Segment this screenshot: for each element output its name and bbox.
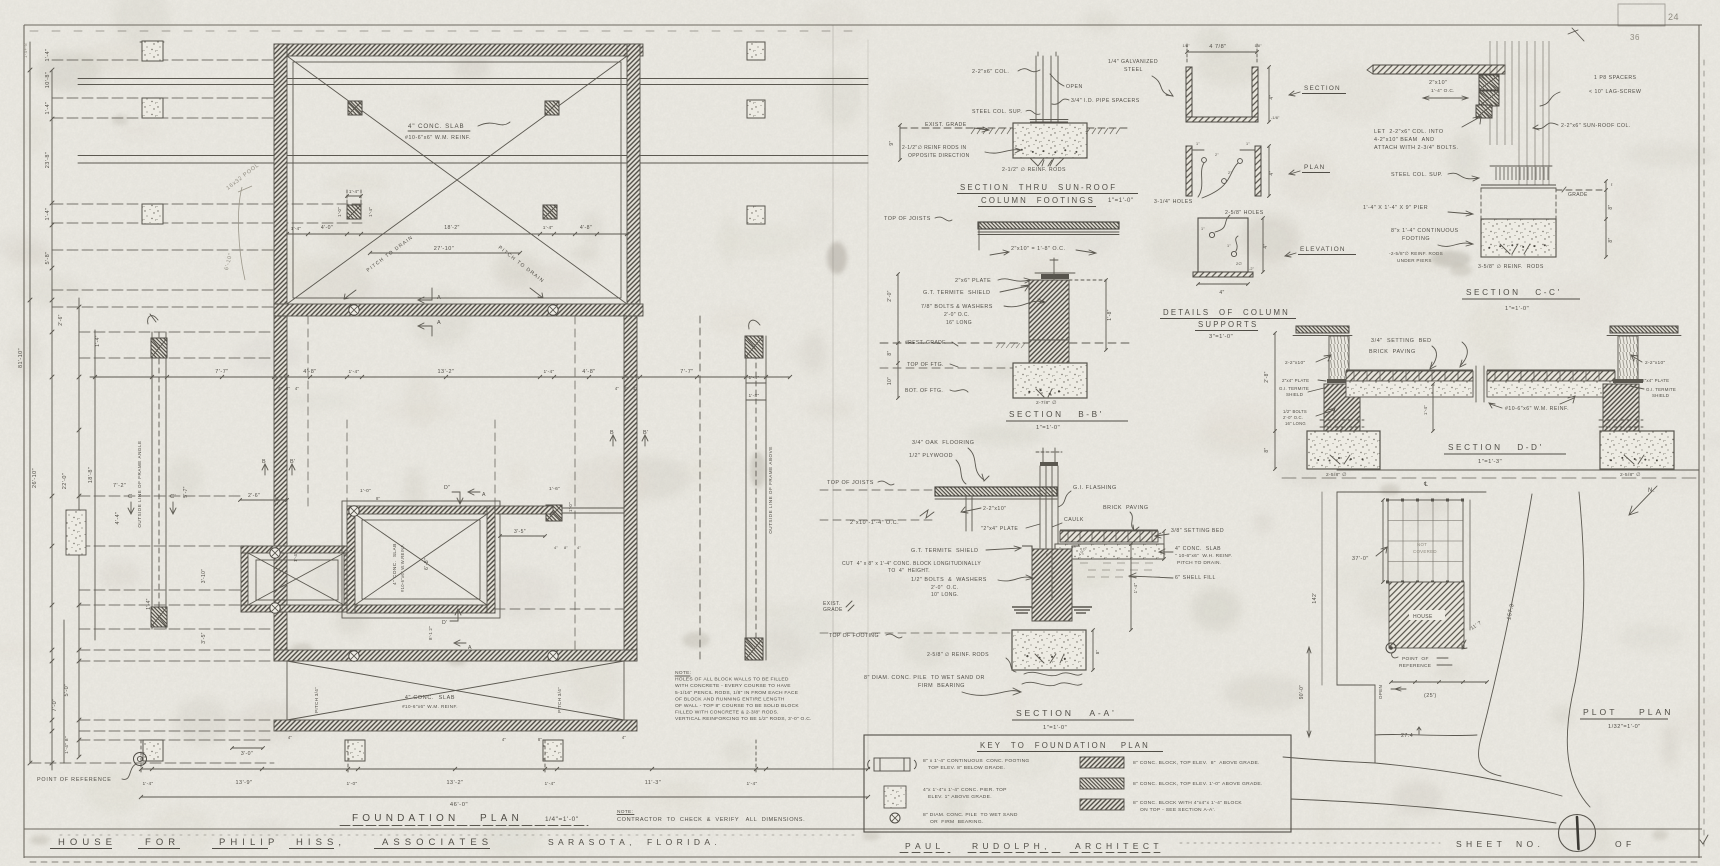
svg-text:2-5/8" ∅: 2-5/8" ∅ xyxy=(1620,472,1641,478)
svg-text:8'-1 2": 8'-1 2" xyxy=(428,626,433,640)
interior vertical guide lines xyxy=(307,316,309,506)
svg-text:F L O R I D A .: F L O R I D A . xyxy=(647,837,718,847)
pier footing tall left xyxy=(66,510,86,555)
svg-text:5'-8": 5'-8" xyxy=(45,252,51,265)
svg-text:2"x10": 2"x10" xyxy=(1429,80,1448,86)
plot lower boundary wavy xyxy=(1375,734,1477,735)
svg-text:4": 4" xyxy=(340,547,344,552)
svg-text:1'-4": 1'-4" xyxy=(274,495,279,505)
svg-text:16" LONG: 16" LONG xyxy=(946,320,972,326)
dd brick band left xyxy=(1346,371,1473,381)
plot road east line xyxy=(1567,492,1590,807)
svg-text:G.I. TERMITE: G.I. TERMITE xyxy=(1279,386,1309,391)
dd right footing xyxy=(1600,431,1674,469)
svg-text:H O U S E: H O U S E xyxy=(58,837,113,848)
overall dim 46 xyxy=(141,796,868,798)
svg-text:TOP OF FTG.: TOP OF FTG. xyxy=(907,362,944,368)
svg-text:#10-6"x6" W.W.REINF.: #10-6"x6" W.W.REINF. xyxy=(400,544,405,592)
svg-text:2"x10" = 1'-8" O.C.: 2"x10" = 1'-8" O.C. xyxy=(1011,246,1065,252)
aa right dims xyxy=(1163,531,1165,559)
svg-text:26'-10": 26'-10" xyxy=(32,468,38,488)
svg-text:O F: O F xyxy=(1615,839,1632,849)
svg-text:F O R: F O R xyxy=(145,837,176,848)
svg-text:5'-7": 5'-7" xyxy=(183,486,189,497)
svg-text:TOP ELEV. 8" BELOW GRADE.: TOP ELEV. 8" BELOW GRADE. xyxy=(928,765,1005,771)
svg-text:22'-0": 22'-0" xyxy=(62,473,68,489)
svg-text:POINT OF: POINT OF xyxy=(1402,656,1429,662)
svg-text:1'-4" 8": 1'-4" 8" xyxy=(64,736,70,754)
dd left footing rods xyxy=(1317,457,1363,462)
plot point of reference xyxy=(1386,643,1396,653)
wall pier circle bottom 1 xyxy=(349,651,359,661)
svg-text:OPEN: OPEN xyxy=(1378,685,1383,699)
channel section U xyxy=(1186,67,1258,122)
plan wall top xyxy=(274,44,643,56)
svg-text:1'-4": 1'-4" xyxy=(543,369,554,375)
svg-text:BRICK PAVING: BRICK PAVING xyxy=(1103,505,1149,511)
svg-text:1'-4": 1'-4" xyxy=(45,102,51,115)
svg-text:1/2" BOLTS & WASHERS: 1/2" BOLTS & WASHERS xyxy=(911,577,987,583)
svg-text:STEEL COL. SUP.: STEEL COL. SUP. xyxy=(1391,172,1443,178)
svg-text:8": 8" xyxy=(286,386,291,391)
svg-text:4'-0": 4'-0" xyxy=(321,225,333,231)
svg-text:4'-8": 4'-8" xyxy=(580,225,592,231)
svg-text:SHIELD: SHIELD xyxy=(1652,393,1669,398)
svg-text:#REST. GRADE: #REST. GRADE xyxy=(905,340,946,346)
dimension column line far left xyxy=(29,42,31,763)
svg-text:4": 4" xyxy=(502,737,507,742)
svg-text:3/8" SETTING BED: 3/8" SETTING BED xyxy=(1171,528,1224,534)
svg-text:1'-4": 1'-4" xyxy=(1133,582,1139,593)
aa termite flange xyxy=(1022,546,1080,549)
roof framing line pair lower xyxy=(78,155,868,157)
svg-text:N O .: N O . xyxy=(1516,839,1541,849)
svg-text:C': C' xyxy=(170,494,176,500)
svg-text:18'-8": 18'-8" xyxy=(88,467,94,483)
svg-text:CAULK: CAULK xyxy=(1064,517,1084,523)
svg-text:1'-8": 1'-8" xyxy=(1107,309,1113,320)
svg-text:B': B' xyxy=(643,430,648,436)
plan dims small xyxy=(1192,149,1204,151)
section marker A bottom xyxy=(418,323,432,336)
aa brick band xyxy=(1060,531,1158,542)
svg-text:WITH CONCRETE - EVERY COURSE T: WITH CONCRETE - EVERY COURSE TO HAVE xyxy=(675,683,791,689)
right frame strip pier top xyxy=(745,336,763,358)
svg-text:2-2"x6" COL.: 2-2"x6" COL. xyxy=(972,69,1009,75)
svg-text:A S S O C I A T E S: A S S O C I A T E S xyxy=(382,837,489,848)
svg-text:SECTION D-D': SECTION D-D' xyxy=(1448,443,1544,452)
plot bottom road arc 2 xyxy=(1291,799,1556,823)
svg-text:SECTION: SECTION xyxy=(1304,85,1341,92)
svg-text:S A R A S O T A ,: S A R A S O T A , xyxy=(548,837,633,847)
key symbol footing xyxy=(868,758,917,771)
plot west boundary xyxy=(1337,492,1375,763)
wall pier circle mid 2 xyxy=(548,305,558,315)
svg-text:OPEN: OPEN xyxy=(1066,84,1083,90)
svg-text:1'-8": 1'-8" xyxy=(748,393,759,399)
aa pile break xyxy=(1024,672,1082,675)
svg-text:7'-0": 7'-0" xyxy=(52,699,58,712)
svg-text:2-5/8" HOLES: 2-5/8" HOLES xyxy=(1225,210,1264,216)
svg-text:4" CONC. SLAB: 4" CONC. SLAB xyxy=(405,695,455,701)
cc roof band xyxy=(1373,65,1505,74)
dd slab right xyxy=(1487,381,1615,397)
svg-text:P A U L: P A U L xyxy=(905,841,941,851)
svg-text:< 10" LAG-SCREW: < 10" LAG-SCREW xyxy=(1589,89,1641,95)
svg-text:8": 8" xyxy=(1608,237,1614,242)
dd joint gap xyxy=(1475,366,1477,402)
cc footing xyxy=(1481,219,1556,257)
svg-text:PITCH 3/4": PITCH 3/4" xyxy=(557,687,562,713)
svg-text:46'-0": 46'-0" xyxy=(450,802,468,808)
key box frame xyxy=(864,735,1291,832)
svg-text:D': D' xyxy=(442,620,447,626)
svg-text:NOTE:: NOTE: xyxy=(675,670,691,676)
svg-text:13'-9": 13'-9" xyxy=(235,780,252,786)
svg-text:GRADE: GRADE xyxy=(823,607,843,613)
svg-text:3/4" I.D. PIPE SPACERS: 3/4" I.D. PIPE SPACERS xyxy=(1071,98,1140,104)
svg-text:1"=1'-0": 1"=1'-0" xyxy=(1036,425,1060,431)
svg-text:1": 1" xyxy=(1246,142,1250,146)
svg-text:HOLES OF ALL BLOCK WALLS TO BE: HOLES OF ALL BLOCK WALLS TO BE FILLED xyxy=(675,677,789,683)
svg-text:1'-4" X 1'-4" X 9" PIER: 1'-4" X 1'-4" X 9" PIER xyxy=(1363,205,1428,211)
sun-roof column pier B4 xyxy=(543,205,557,219)
svg-text:"2"x4" PLATE: "2"x4" PLATE xyxy=(981,526,1018,532)
svg-text:4": 4" xyxy=(288,735,293,740)
key symbol pile xyxy=(890,813,900,823)
plan wall bottom inner xyxy=(274,650,637,661)
svg-text:A: A xyxy=(482,492,486,498)
svg-text:OF BLOCK AND RUNNING ENTIRE LE: OF BLOCK AND RUNNING ENTIRE LENGTH xyxy=(675,696,785,702)
svg-text:8": 8" xyxy=(1264,447,1270,452)
svg-text:10'-8": 10'-8" xyxy=(45,72,51,88)
center room east wall xyxy=(487,506,495,613)
svg-text:4 7/8": 4 7/8" xyxy=(1209,44,1226,50)
svg-text:4-2"x10" BEAM AND: 4-2"x10" BEAM AND xyxy=(1374,137,1434,143)
aa left joist xyxy=(965,496,967,531)
sun-roof column pier B1 xyxy=(348,101,362,115)
svg-text:P H I L I P: P H I L I P xyxy=(219,837,276,848)
svg-text:STEEL COL. SUP.: STEEL COL. SUP. xyxy=(972,109,1022,115)
channel right dim xyxy=(1268,67,1270,122)
center room diagonals xyxy=(355,514,487,605)
bb column xyxy=(1029,280,1069,340)
svg-text:KEY TO FOUNDATION PLAN: KEY TO FOUNDATION PLAN xyxy=(980,741,1150,750)
svg-text:142': 142' xyxy=(1312,592,1318,603)
dd slab left xyxy=(1346,381,1473,397)
svg-text:2'-0" O.C.: 2'-0" O.C. xyxy=(931,585,958,591)
svg-text:S H E E T: S H E E T xyxy=(1456,839,1503,849)
cc right dim xyxy=(1605,181,1607,257)
svg-text:LET 2-2"x6" COL. INTO: LET 2-2"x6" COL. INTO xyxy=(1374,129,1444,135)
svg-text:CONTRACTOR TO CHECK & VERI: CONTRACTOR TO CHECK & VERIFY ALL DIMENSI… xyxy=(617,817,805,823)
svg-text:6" SHELL FILL: 6" SHELL FILL xyxy=(1175,575,1216,581)
bb joist band xyxy=(978,222,1119,229)
wall pier circle left wall 2 xyxy=(270,603,280,613)
key swatch 3 xyxy=(1080,799,1124,810)
svg-text:3/4" SETTING BED: 3/4" SETTING BED xyxy=(1371,338,1432,344)
svg-text:SECTION THRU SUN-ROOF: SECTION THRU SUN-ROOF xyxy=(960,183,1117,192)
bb plate xyxy=(1041,274,1069,279)
plot house hatched xyxy=(1389,582,1464,648)
svg-text:ATTACH WITH 2-3/4" BOLTS.: ATTACH WITH 2-3/4" BOLTS. xyxy=(1374,145,1459,151)
dd left plate xyxy=(1327,379,1357,383)
svg-text:1'-4": 1'-4" xyxy=(1423,405,1428,415)
svg-text:16" LONG: 16" LONG xyxy=(1285,421,1306,426)
svg-text:2-2"x6" SUN-ROOF COL.: 2-2"x6" SUN-ROOF COL. xyxy=(1561,123,1631,129)
svg-text:2"x6" PLATE: 2"x6" PLATE xyxy=(955,278,991,284)
sun-roof slab diagonals xyxy=(287,56,627,304)
plot house grid xyxy=(1388,500,1463,582)
svg-text:2-1/2" ∅ REINF. RODS: 2-1/2" ∅ REINF. RODS xyxy=(1002,167,1066,173)
inner room north-left wall xyxy=(241,546,351,553)
svg-text:3'-5": 3'-5" xyxy=(514,529,526,535)
key swatch 1 xyxy=(1080,757,1124,768)
svg-text:G.T. TERMITE SHIELD: G.T. TERMITE SHIELD xyxy=(911,548,979,554)
cc beam blocks xyxy=(1479,75,1499,90)
svg-text:HOUSE: HOUSE xyxy=(1413,614,1433,620)
svg-text:2-2"x10": 2-2"x10" xyxy=(1645,360,1665,366)
sun-roof reinf rod dots xyxy=(1021,149,1078,154)
plot bottom road arc 1 xyxy=(1283,757,1562,796)
svg-text:3/4" OAK FLOORING: 3/4" OAK FLOORING xyxy=(912,440,974,446)
wall pier circle room 1 xyxy=(349,506,359,516)
bottom strip inner lines xyxy=(287,661,624,720)
svg-text:FILLED WITH CONCRETE & 2-3/8": FILLED WITH CONCRETE & 2-3/8" RODS. xyxy=(675,710,779,716)
inner room west wall xyxy=(241,546,248,612)
svg-text:ON TOP - SEE SECTION A-A'.: ON TOP - SEE SECTION A-A'. xyxy=(1140,807,1216,813)
svg-text:1/2" PLYWOOD: 1/2" PLYWOOD xyxy=(909,453,953,459)
dd center dim xyxy=(1432,384,1434,431)
svg-text:CUT 4" x 8" x 1'-4" CONC. BLO: CUT 4" x 8" x 1'-4" CONC. BLOCK LONGITUD… xyxy=(842,561,981,567)
svg-text:1'-4": 1'-4" xyxy=(746,781,757,787)
plan wall right upper xyxy=(627,44,640,316)
svg-text:-1/8": -1/8" xyxy=(1271,116,1280,120)
plot 90 dim xyxy=(1308,648,1310,736)
check mark xyxy=(1700,835,1708,844)
svg-text:7'-7": 7'-7" xyxy=(680,369,693,375)
dd left column cap xyxy=(1296,326,1349,333)
svg-text:A: A xyxy=(437,295,441,301)
svg-text:90'-0": 90'-0" xyxy=(1299,685,1305,700)
svg-text:4": 4" xyxy=(1263,243,1269,248)
svg-text:4": 4" xyxy=(615,386,620,391)
left frame strip xyxy=(151,332,153,629)
wall pier circle left wall 1 xyxy=(270,548,280,558)
svg-text:PITCH 3/4": PITCH 3/4" xyxy=(314,687,319,713)
extension line y42 xyxy=(140,41,166,43)
sun-roof section footing xyxy=(1013,123,1087,158)
svg-text:2": 2" xyxy=(1215,153,1219,157)
svg-text:4" CONC. SLAB: 4" CONC. SLAB xyxy=(1175,546,1221,552)
svg-text:VERTICAL REINFORCING TO BE 1/2: VERTICAL REINFORCING TO BE 1/2" RODS, 3'… xyxy=(675,716,812,722)
wall pier circle bottom 2 xyxy=(548,651,558,661)
svg-text:4'-8": 4'-8" xyxy=(582,369,595,375)
svg-text:" 10-6"x6" W.H. REINF.: " 10-6"x6" W.H. REINF. xyxy=(1175,553,1233,559)
plan right dim xyxy=(1268,146,1270,196)
dimension column line left xyxy=(51,70,53,770)
svg-text:1'-4": 1'-4" xyxy=(45,49,51,62)
main dim row y377 xyxy=(90,376,790,378)
svg-text:A: A xyxy=(437,320,441,326)
svg-text:H I S S ,: H I S S , xyxy=(296,837,342,848)
svg-text:PLAN: PLAN xyxy=(1304,164,1326,171)
plot east lot line xyxy=(1469,500,1471,630)
svg-text:8" CONC. BLOCK WITH 4"x4"x 1'-: 8" CONC. BLOCK WITH 4"x4"x 1'-4" BLOCK xyxy=(1133,800,1242,806)
svg-text:37'-0": 37'-0" xyxy=(1352,556,1369,562)
bb grade line xyxy=(880,342,1029,344)
svg-text:4": 4" xyxy=(295,386,300,391)
inner room left inner line xyxy=(256,560,338,600)
sun-roof grade line left xyxy=(900,127,1013,129)
aa column top xyxy=(1040,462,1058,466)
svg-text:8": 8" xyxy=(538,737,543,742)
svg-text:G.I. FLASHING: G.I. FLASHING xyxy=(1073,485,1117,491)
interior dim row sun-roof xyxy=(287,233,627,235)
svg-text:1/2" BOLTS: 1/2" BOLTS xyxy=(1283,409,1307,414)
svg-text:3-5/8" ∅ REINF. RODS: 3-5/8" ∅ REINF. RODS xyxy=(1478,264,1544,270)
svg-text:STEEL: STEEL xyxy=(1124,67,1143,73)
center room west wall xyxy=(347,506,355,613)
elevation right dim xyxy=(1262,218,1264,272)
bb right dim xyxy=(1105,280,1107,350)
svg-text:8: 8 xyxy=(1046,553,1048,557)
bb left dim xyxy=(897,274,899,398)
svg-text:5'-0": 5'-0" xyxy=(64,684,70,697)
svg-text:6'-8": 6'-8" xyxy=(424,558,430,570)
svg-text:3"=1'-0": 3"=1'-0" xyxy=(1209,334,1233,340)
svg-text:FIRM BEARING: FIRM BEARING xyxy=(918,683,965,689)
plan holes xyxy=(1202,158,1243,184)
sun-roof section column lines xyxy=(1035,56,1037,123)
svg-text:(25'): (25') xyxy=(1424,693,1437,699)
svg-text:23'-8": 23'-8" xyxy=(45,152,51,168)
svg-text:4": 4" xyxy=(633,386,638,391)
plan inner face lines sun-roof room xyxy=(293,62,621,298)
key swatch 2 xyxy=(1080,778,1124,789)
sun-roof column pier B2 xyxy=(545,101,559,115)
vertical ticks bottom dim xyxy=(140,740,142,772)
svg-text:ELEVATION: ELEVATION xyxy=(1300,246,1346,253)
svg-text:10": 10" xyxy=(887,377,893,385)
svg-text:3'-10": 3'-10" xyxy=(201,569,207,584)
svg-text:4": 4" xyxy=(577,545,581,550)
svg-text:3-1/4" HOLES: 3-1/4" HOLES xyxy=(1154,199,1193,205)
svg-text:1": 1" xyxy=(1196,142,1200,146)
svg-text:8": 8" xyxy=(624,386,629,391)
svg-text:#10-6"x6" W.M. REINF.: #10-6"x6" W.M. REINF. xyxy=(1505,406,1569,412)
svg-text:4" CONC. SLAB: 4" CONC. SLAB xyxy=(408,123,465,130)
plot dim row xyxy=(1391,681,1487,683)
cc footing rods xyxy=(1488,244,1546,249)
svg-text:1'-4": 1'-4" xyxy=(142,781,153,787)
channel top dim xyxy=(1187,51,1257,53)
svg-text:PLOT PLAN: PLOT PLAN xyxy=(1583,707,1673,717)
svg-text:3'-0": 3'-0" xyxy=(241,751,253,757)
section marker A top xyxy=(418,288,432,303)
plot house grid ticks xyxy=(1386,499,1464,584)
sun-roof dim 9 xyxy=(899,125,901,160)
svg-text:R U D O L P H ,: R U D O L P H , xyxy=(972,841,1047,851)
center room outer line xyxy=(342,501,500,618)
svg-text:4": 4" xyxy=(1269,94,1275,99)
plan wall left lower xyxy=(274,316,287,661)
svg-text:4'-4": 4'-4" xyxy=(115,512,121,525)
left extension lines xyxy=(52,59,287,61)
sheet line dashes xyxy=(1180,842,1440,844)
svg-text:2'-0" O.C.: 2'-0" O.C. xyxy=(1283,415,1303,420)
svg-text:1"=1'-3": 1"=1'-3" xyxy=(1478,459,1502,465)
roof framing line pair upper xyxy=(78,78,868,80)
stub wall right of center room xyxy=(495,506,553,514)
svg-text:TOP OF JOISTS: TOP OF JOISTS xyxy=(884,216,931,222)
svg-text:4": 4" xyxy=(622,735,627,740)
svg-text:2-2"x10": 2-2"x10" xyxy=(983,506,1007,512)
svg-text:1'-0": 1'-0" xyxy=(346,781,357,787)
svg-text:8" x 1'-4" CONTINUOUS CONC. F: 8" x 1'-4" CONTINUOUS CONC. FOOTING xyxy=(923,758,1030,764)
svg-text:BRICK PAVING: BRICK PAVING xyxy=(1369,349,1416,355)
svg-text:8" CONC. BLOCK, TOP ELEV. 8": 8" CONC. BLOCK, TOP ELEV. 8" ABOVE GRADE… xyxy=(1133,760,1260,766)
dd left column studs xyxy=(1329,336,1349,381)
svg-text:REFERENCE: REFERENCE xyxy=(1399,663,1431,669)
aa slab xyxy=(1055,544,1164,559)
dd brick band right xyxy=(1487,371,1615,381)
aa shell fill texture xyxy=(1080,563,1160,577)
sun-roof pier footing A1 xyxy=(142,41,163,61)
dd right plate xyxy=(1613,379,1643,383)
svg-text:1'-0": 1'-0" xyxy=(360,488,371,494)
svg-text:COLUMN FOOTINGS: COLUMN FOOTINGS xyxy=(981,196,1095,205)
sun-roof pier footing right column R2 xyxy=(747,100,765,118)
svg-text:UNDER PIERS: UNDER PIERS xyxy=(1397,258,1432,263)
svg-text:TOP OF JOISTS: TOP OF JOISTS xyxy=(827,480,874,486)
wall pier circle room 2 xyxy=(548,508,558,518)
svg-text:8": 8" xyxy=(887,350,893,355)
dd left footing xyxy=(1307,431,1380,469)
svg-text:-2": -2" xyxy=(1249,267,1255,271)
svg-text:FOUNDATION: FOUNDATION xyxy=(352,813,459,824)
pier square right mid wall xyxy=(546,505,562,521)
svg-text:OF WALL - TOP 8" COURSE TO BE: OF WALL - TOP 8" COURSE TO BE SOLID BLOC… xyxy=(675,703,799,709)
svg-text:BOT. OF FTG.: BOT. OF FTG. xyxy=(905,388,943,394)
dd right footing rods xyxy=(1610,457,1658,462)
svg-text:SECTION B-B': SECTION B-B' xyxy=(1009,410,1104,419)
svg-text:7'-7": 7'-7" xyxy=(215,369,228,375)
aa footing xyxy=(1012,630,1086,670)
pier dim cluster xyxy=(347,195,361,197)
svg-text:1'-6": 1'-6" xyxy=(549,486,560,492)
svg-text:1": 1" xyxy=(1201,227,1205,231)
svg-text:18'-2": 18'-2" xyxy=(444,225,460,231)
fold crease xyxy=(832,25,834,770)
svg-text:2'-0": 2'-0" xyxy=(887,290,893,301)
svg-text:G.I. TERMITE: G.I. TERMITE xyxy=(1646,387,1676,392)
svg-text:4": 4" xyxy=(554,545,558,550)
plot centerline xyxy=(1282,477,1699,479)
svg-text:1'-0": 1'-0" xyxy=(568,502,573,512)
svg-text:2-7/8" ∅: 2-7/8" ∅ xyxy=(1036,400,1057,406)
inner room east-left wall xyxy=(344,546,351,612)
center room inner line xyxy=(362,520,480,599)
svg-text:POINT OF REFERENCE: POINT OF REFERENCE xyxy=(37,777,112,783)
elevation plate xyxy=(1198,218,1248,272)
svg-text:8" CONC. BLOCK, TOP ELEV. 1'-0: 8" CONC. BLOCK, TOP ELEV. 1'-0" ABOVE GR… xyxy=(1133,781,1263,787)
svg-text:11'-3": 11'-3" xyxy=(645,780,662,786)
svg-text:A R C H I T E C T: A R C H I T E C T xyxy=(1075,841,1160,851)
svg-text:OUTSIDE LINE OF FRAME ANGLE: OUTSIDE LINE OF FRAME ANGLE xyxy=(137,440,142,527)
svg-text:8" DIAM. CONC. PILE TO WET SA: 8" DIAM. CONC. PILE TO WET SAND xyxy=(923,812,1018,818)
svg-text:GRADE: GRADE xyxy=(1568,192,1588,198)
